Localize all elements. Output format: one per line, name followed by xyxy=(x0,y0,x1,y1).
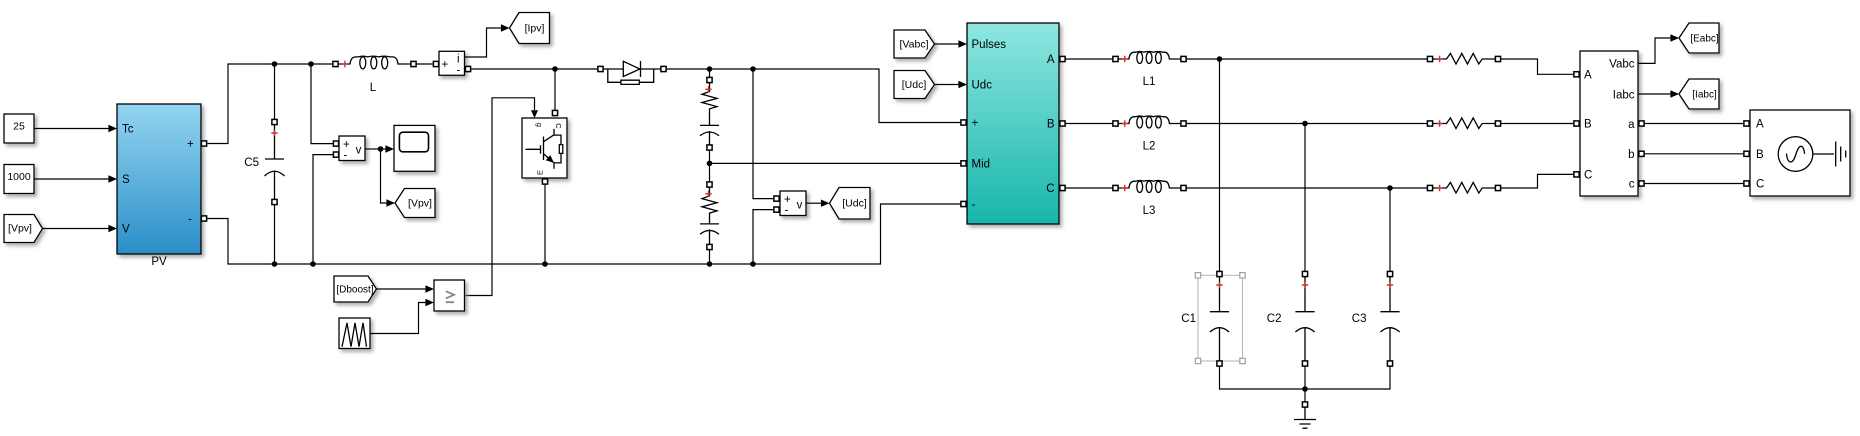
wire bridge B to L2 xyxy=(1065,123,1113,125)
node IGBT collector tap xyxy=(552,66,558,72)
wire PV+ to DC top bus xyxy=(207,64,334,144)
wire to scope xyxy=(381,148,386,150)
svg-text:c: c xyxy=(1629,179,1635,191)
wire RA to measurement A xyxy=(1501,59,1574,74)
node neutral xyxy=(1302,386,1308,392)
svg-text:L2: L2 xyxy=(1143,141,1156,153)
wire sawtooth to relational operator xyxy=(370,303,425,334)
wire voltmeter output xyxy=(365,148,381,150)
repeating sequence (sawtooth) block xyxy=(339,318,370,349)
svg-text:C3: C3 xyxy=(1352,313,1367,325)
wire Vabc to goto Eabc xyxy=(1638,38,1670,63)
IGBT gate arrow xyxy=(531,110,538,118)
wire Udc voltmeter to goto xyxy=(806,202,821,204)
node bottom bus / voltmeter xyxy=(310,261,316,267)
capacitor C2 xyxy=(1295,271,1314,366)
selection frame around C1 xyxy=(1198,275,1243,361)
bridge + port xyxy=(961,120,966,125)
svg-text:Vabc: Vabc xyxy=(1609,58,1635,70)
inductor L3 xyxy=(1113,181,1186,193)
wire PV- to DC bottom bus xyxy=(207,204,961,264)
From tag [Vabc] xyxy=(894,30,935,58)
ground G1 xyxy=(1302,402,1307,407)
svg-text:[Ipv]: [Ipv] xyxy=(525,23,545,35)
wire a to source A xyxy=(1645,123,1744,125)
svg-text:-: - xyxy=(188,214,192,226)
diode D1 xyxy=(598,61,666,84)
scope block xyxy=(394,125,435,171)
svg-text:25: 25 xyxy=(13,121,25,133)
node DC midpoint xyxy=(707,161,713,167)
wire C3 drop xyxy=(1389,188,1391,272)
svg-text:A: A xyxy=(1047,54,1055,66)
svg-text:Udc: Udc xyxy=(972,80,993,92)
wire to goto Vpv xyxy=(381,149,387,203)
wire L2 to resistor RB xyxy=(1186,123,1428,125)
RC snubber branch 1 (R + C series) xyxy=(700,69,719,163)
capacitor C5 xyxy=(272,119,277,124)
IGBT E port xyxy=(542,179,547,184)
RC snubber branch 2 (R + C series) xyxy=(700,163,719,264)
svg-text:-: - xyxy=(785,205,789,217)
svg-text:E: E xyxy=(535,170,544,175)
node bottom bus / Udc voltmeter xyxy=(750,261,756,267)
node bottom bus / C5 xyxy=(272,261,278,267)
svg-text:[Udc]: [Udc] xyxy=(902,79,927,91)
wire Iabc to goto Iabc xyxy=(1638,93,1670,95)
svg-text:[Vabc]: [Vabc] xyxy=(900,39,929,51)
three-phase source block V1 xyxy=(1750,110,1850,196)
voltage measurement U3 (Udc) xyxy=(780,191,806,216)
wire RB to measurement B xyxy=(1501,123,1574,125)
svg-text:C5: C5 xyxy=(244,157,259,169)
wire RC to measurement C xyxy=(1501,174,1574,188)
wire IGBT collector tap xyxy=(554,69,556,111)
svg-text:Tc: Tc xyxy=(122,124,134,136)
PV + port xyxy=(201,141,206,146)
svg-text:PV: PV xyxy=(151,256,167,268)
resistor RB xyxy=(1427,118,1500,129)
From tag [Udc] (bridge input) xyxy=(894,71,935,99)
svg-text:+: + xyxy=(972,118,979,130)
Goto tag [Udc] xyxy=(830,188,871,220)
wire bridge C to L3 xyxy=(1065,187,1113,189)
wire i output to goto Ipv xyxy=(465,28,501,57)
svg-text:L1: L1 xyxy=(1143,76,1156,88)
svg-text:Pulses: Pulses xyxy=(972,39,1007,51)
wire current meas to diode (DC+ rail) xyxy=(471,68,599,70)
node phase A / C1 xyxy=(1217,56,1223,62)
svg-text:C: C xyxy=(1584,169,1592,181)
svg-text:+: + xyxy=(187,139,194,151)
bridge Mid port xyxy=(961,161,966,166)
node top bus / voltmeter xyxy=(308,61,314,67)
svg-text:L: L xyxy=(370,82,377,94)
capacitor C1 xyxy=(1210,271,1229,366)
wire C5 top tap xyxy=(274,64,276,120)
svg-text:Iabc: Iabc xyxy=(1613,90,1635,102)
IGBT block Q1 xyxy=(522,118,567,178)
wire L3 to resistor RC xyxy=(1186,187,1428,189)
node bottom bus / IGBT emitter xyxy=(542,261,548,267)
bridge A port xyxy=(1060,56,1065,61)
wire diode to DC+ rail toward bridge xyxy=(666,69,961,123)
node DC+ / RC branch 1 xyxy=(707,66,713,72)
svg-text:C1: C1 xyxy=(1181,313,1196,325)
svg-text:v: v xyxy=(356,145,362,157)
svg-text:[Eabc]: [Eabc] xyxy=(1690,34,1719,45)
wire Dboost to relational operator xyxy=(377,288,426,290)
wire L to current measurement xyxy=(416,63,433,65)
svg-text:1000: 1000 xyxy=(7,171,31,183)
svg-text:a: a xyxy=(1628,119,1635,131)
IGBT C port xyxy=(552,110,557,115)
svg-text:+: + xyxy=(442,59,449,71)
svg-text:-: - xyxy=(972,199,976,211)
resistor RA xyxy=(1427,53,1500,64)
PV - port xyxy=(201,216,206,221)
node voltmeter output xyxy=(378,146,384,152)
svg-text:C2: C2 xyxy=(1267,313,1282,325)
svg-text:C: C xyxy=(554,123,563,129)
bridge - port xyxy=(961,201,966,206)
source icon: sine circle and ground xyxy=(1778,137,1813,172)
svg-text:-: - xyxy=(344,150,348,162)
wire 25 to PV Tc xyxy=(34,128,109,130)
wire Udc to bridge xyxy=(935,84,959,86)
From tag [Dboost] xyxy=(334,276,377,302)
svg-text:g: g xyxy=(535,123,544,127)
svg-text:[Vpv]: [Vpv] xyxy=(408,198,432,210)
svg-text:A: A xyxy=(1756,119,1764,131)
wire b to source B xyxy=(1645,153,1744,155)
wire DC- to Udc voltmeter xyxy=(753,210,774,264)
wire bridge A to L1 xyxy=(1065,58,1113,60)
wire DC+ to Udc voltmeter xyxy=(753,69,774,199)
wire [Vpv] to PV V xyxy=(43,228,109,230)
svg-text:[Dboost]: [Dboost] xyxy=(336,285,373,296)
svg-text:b: b xyxy=(1628,149,1634,161)
svg-text:A: A xyxy=(1584,69,1592,81)
svg-text:B: B xyxy=(1047,119,1055,131)
voltage measurement U1 (Vpv) xyxy=(339,136,365,161)
inverter bridge block U4 xyxy=(967,23,1059,224)
svg-text:C: C xyxy=(1756,179,1764,191)
Goto tag [Ipv] xyxy=(510,13,550,44)
node phase B / C2 xyxy=(1302,121,1308,127)
svg-text:V: V xyxy=(122,224,130,236)
inductor L1 xyxy=(1113,52,1186,64)
wire 1000 to PV S xyxy=(34,178,109,180)
svg-text:[Udc]: [Udc] xyxy=(842,198,867,210)
svg-text:B: B xyxy=(1756,149,1764,161)
inductor L xyxy=(333,56,416,94)
svg-text:[Vpv]: [Vpv] xyxy=(8,223,32,235)
wire voltmeter + tap xyxy=(311,64,333,144)
svg-text:-: - xyxy=(457,65,461,77)
wire voltmeter - tap xyxy=(313,155,333,264)
wire C5 bottom xyxy=(274,205,276,265)
wire neutral bus to ground xyxy=(1220,366,1391,402)
svg-text:[Iabc]: [Iabc] xyxy=(1692,90,1717,101)
Goto tag [Vpv] xyxy=(395,189,435,218)
capacitor C3 xyxy=(1380,271,1399,366)
wire C1 drop xyxy=(1219,59,1221,272)
PV array block xyxy=(117,104,201,254)
bridge C port xyxy=(1060,185,1065,190)
bridge B port xyxy=(1060,121,1065,126)
From tag [Vpv] xyxy=(4,215,43,243)
node bottom bus / RC branch xyxy=(707,261,713,267)
wire Vabc to bridge Pulses xyxy=(935,43,959,45)
wire midpoint to bridge Mid xyxy=(710,162,961,164)
node top bus / C5 xyxy=(272,61,278,67)
wire IGBT emitter to bottom bus xyxy=(544,184,546,264)
resistor RC xyxy=(1427,182,1500,193)
constant block 25 (Tc input) xyxy=(4,114,34,143)
wire C2 drop xyxy=(1304,124,1306,272)
inductor L2 xyxy=(1113,116,1186,128)
svg-text:v: v xyxy=(797,200,803,212)
svg-text:S: S xyxy=(122,174,130,186)
svg-text:Mid: Mid xyxy=(972,159,991,171)
constant block 1000 (S input) xyxy=(4,165,34,194)
wire gate signal from relational operator xyxy=(465,98,535,296)
current measurement U2 (Ipv) xyxy=(439,51,465,75)
wire c to source C xyxy=(1645,183,1744,185)
svg-text:C: C xyxy=(1046,183,1054,195)
svg-text:B: B xyxy=(1584,119,1592,131)
node phase C / C3 xyxy=(1387,185,1393,191)
Goto tag [Eabc] xyxy=(1679,23,1719,53)
relational operator >= xyxy=(434,280,465,311)
three-phase VI measurement block U5 xyxy=(1580,51,1638,196)
svg-text:L3: L3 xyxy=(1143,205,1156,217)
node DC+ / Udc voltmeter tap xyxy=(750,66,756,72)
Goto tag [Iabc] xyxy=(1679,79,1719,109)
wire L1 to resistor RA xyxy=(1186,58,1428,60)
